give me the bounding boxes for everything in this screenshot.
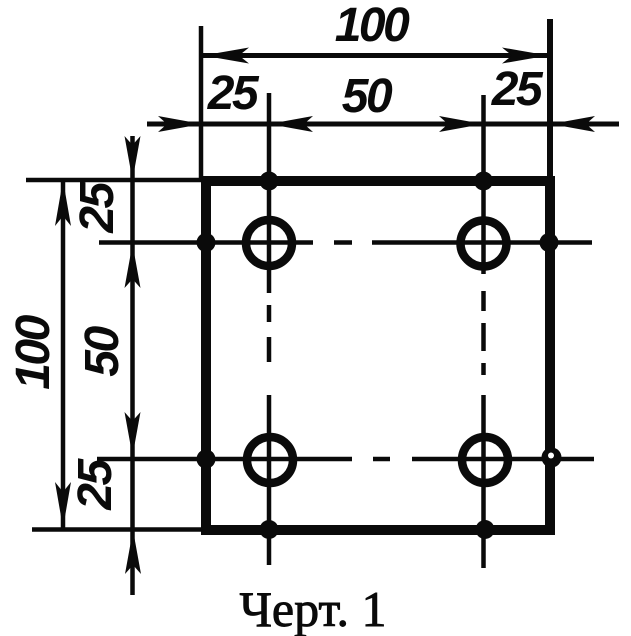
arrowhead left of top 100 dim (203, 48, 249, 64)
extension line bottom edge leftward (32, 527, 204, 532)
svg-text:100: 100 (7, 314, 60, 389)
svg-text:Черт. 1: Черт. 1 (239, 581, 386, 636)
arrowhead at plate top edge pointing down (125, 136, 141, 180)
svg-text:25: 25 (69, 458, 122, 511)
centerline horizontal top hole row (99, 240, 592, 245)
arrowhead at right hole centerline pointing right (439, 116, 483, 132)
svg-text:25: 25 (491, 63, 544, 116)
svg-text:25: 25 (71, 181, 124, 234)
arrowhead right of top 100 dim (502, 48, 548, 64)
junction dot right edge x top centerline (540, 233, 559, 252)
arrowhead at plate left edge pointing right (158, 116, 202, 132)
arrowhead at plate bottom edge pointing up (125, 530, 141, 574)
hole top-left (246, 220, 292, 266)
arrowhead at top hole centerline pointing up (125, 244, 141, 288)
svg-text:100: 100 (335, 0, 410, 52)
arrowhead up of left 100 dim (55, 180, 71, 226)
arrowhead down of left 100 dim (55, 482, 71, 528)
junction dot left edge x top centerline (197, 233, 216, 252)
centerline vertical right hole column (481, 95, 486, 568)
svg-text:25: 25 (207, 67, 260, 120)
plate outline (206, 181, 550, 530)
junction ring right edge x bottom centerline (542, 448, 562, 468)
extension line top edge leftward (26, 178, 204, 183)
extension line left vertical (top) (199, 26, 204, 178)
hole bottom-right (462, 437, 508, 483)
junction dot left edge x bottom centerline (197, 450, 216, 469)
dimension line 100 top (203, 53, 548, 58)
arrowhead at bottom hole centerline pointing down (125, 412, 141, 456)
centerline vertical left hole column (267, 93, 272, 565)
junction dot bottom edge x left centerline (260, 520, 279, 539)
junction dot top edge x left centerline (260, 172, 279, 191)
arrowhead at left hole centerline pointing left (269, 116, 313, 132)
dimension chain line 25/50/25 top (147, 122, 619, 127)
junction dot bottom edge x right centerline (476, 520, 495, 539)
hole top-right (461, 221, 507, 267)
junction dot top edge x right centerline (474, 172, 493, 191)
arrowhead at plate right edge pointing left (551, 116, 595, 132)
dimension line 100 left vertical (61, 180, 66, 528)
centerline horizontal bottom hole row (97, 457, 594, 462)
extension line right vertical (top) (547, 19, 553, 178)
dimension chain line 25/50/25 left vertical (130, 136, 135, 595)
svg-text:50: 50 (342, 70, 393, 123)
svg-text:50: 50 (76, 326, 129, 377)
hole bottom-left (247, 437, 293, 483)
